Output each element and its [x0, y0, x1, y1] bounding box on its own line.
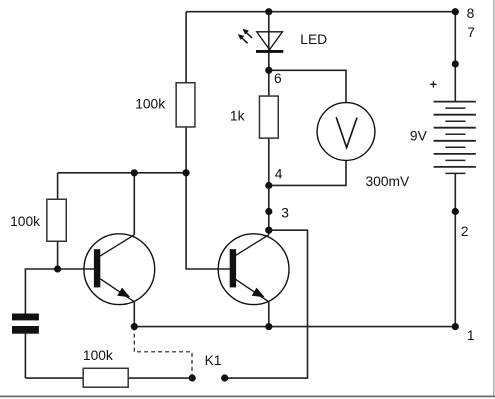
label switch K1: [205, 353, 222, 368]
wire Q2 base branch: [186, 173, 232, 269]
node 1: [452, 323, 459, 330]
wire Q1 emitter lead: [133, 302, 135, 327]
label node 1: [467, 328, 475, 343]
svg-text:1: 1: [467, 328, 475, 343]
resistor R2 100k: [47, 199, 66, 241]
label battery plus sign: [430, 81, 436, 87]
wire capacitor bottom branch: [24, 334, 26, 378]
switch K1 contact left: [189, 374, 196, 381]
svg-text:9V: 9V: [410, 128, 428, 143]
wire Q2 emitter lead: [268, 302, 270, 327]
label voltmeter reading 300mV: [366, 174, 411, 189]
LED D1: [238, 29, 283, 53]
wire capacitor top branch: [25, 269, 57, 314]
wire voltmeter top lead: [269, 70, 346, 102]
svg-text:1k: 1k: [230, 109, 245, 124]
wire battery negative lead: [454, 173, 456, 326]
wire LED branch vertical: [268, 12, 270, 71]
svg-text:100k: 100k: [135, 96, 165, 111]
wire mid horizontal: [58, 172, 187, 174]
svg-text:8: 8: [467, 6, 475, 21]
node 2: [452, 208, 459, 215]
node 8: [452, 8, 459, 15]
svg-text:K1: K1: [205, 353, 222, 368]
wire Q1 collector lead: [133, 173, 135, 235]
transistor Q1: [84, 234, 155, 305]
junction Q2 collector branch: [265, 227, 272, 234]
wire voltmeter bottom lead: [269, 160, 346, 185]
wire right column through 1k to Q2 collector: [268, 70, 270, 235]
battery BT1 9V: [434, 102, 476, 174]
label node 3: [281, 205, 289, 220]
label node 7: [467, 25, 475, 40]
label node 2: [461, 224, 469, 239]
svg-text:LED: LED: [300, 32, 327, 47]
wire Q1 base lead: [58, 268, 96, 270]
wire Q2 collector to switch K1: [225, 230, 308, 378]
junction Q1 collector / mid wire: [131, 169, 138, 176]
node 6: [265, 67, 272, 74]
junction Q1 emitter / bottom wire: [131, 323, 138, 330]
node 7: [452, 60, 459, 67]
junction Q1 base / R2 / C1: [54, 265, 61, 272]
node 4: [265, 182, 272, 189]
label node 4: [275, 167, 283, 182]
svg-text:4: 4: [275, 167, 283, 182]
junction R1 / mid wire: [183, 169, 190, 176]
wire R2 branch vertical: [57, 173, 59, 269]
wire battery positive lead: [454, 12, 456, 102]
resistor R3 1k: [259, 96, 278, 138]
label battery value 9V: [410, 128, 428, 143]
junction top rail to LED: [265, 8, 272, 15]
label node 6: [274, 71, 282, 86]
capacitor C1: [12, 314, 39, 334]
wire bottom-left horizontal through R4: [25, 377, 192, 379]
wire R1 branch vertical: [185, 12, 187, 173]
label R4 value 100k: [83, 348, 113, 363]
resistor R4 100k: [83, 368, 128, 387]
wire dashed link to switch K1: [134, 327, 192, 378]
svg-text:7: 7: [467, 25, 475, 40]
resistor R1 100k: [176, 83, 195, 127]
label R3 value 1k: [230, 109, 245, 124]
wire top rail (node 8): [186, 11, 455, 13]
svg-text:3: 3: [281, 205, 289, 220]
label R1 value 100k: [135, 96, 165, 111]
wire bottom main (node 1): [134, 326, 455, 328]
svg-text:100k: 100k: [83, 348, 113, 363]
frame bottom edge: [0, 396, 495, 398]
transistor Q2: [218, 234, 289, 305]
label node 8: [467, 6, 475, 21]
node 3: [265, 208, 272, 215]
voltmeter M1: [317, 103, 375, 161]
frame right edge: [493, 0, 494, 397]
svg-text:6: 6: [274, 71, 282, 86]
label R2 value 100k: [10, 214, 40, 229]
svg-text:300mV: 300mV: [366, 174, 411, 189]
svg-text:100k: 100k: [10, 214, 40, 229]
switch K1 contact right: [221, 374, 228, 381]
junction Q2 emitter / bottom wire: [265, 323, 272, 330]
label LED: [300, 32, 327, 47]
svg-text:2: 2: [461, 224, 469, 239]
